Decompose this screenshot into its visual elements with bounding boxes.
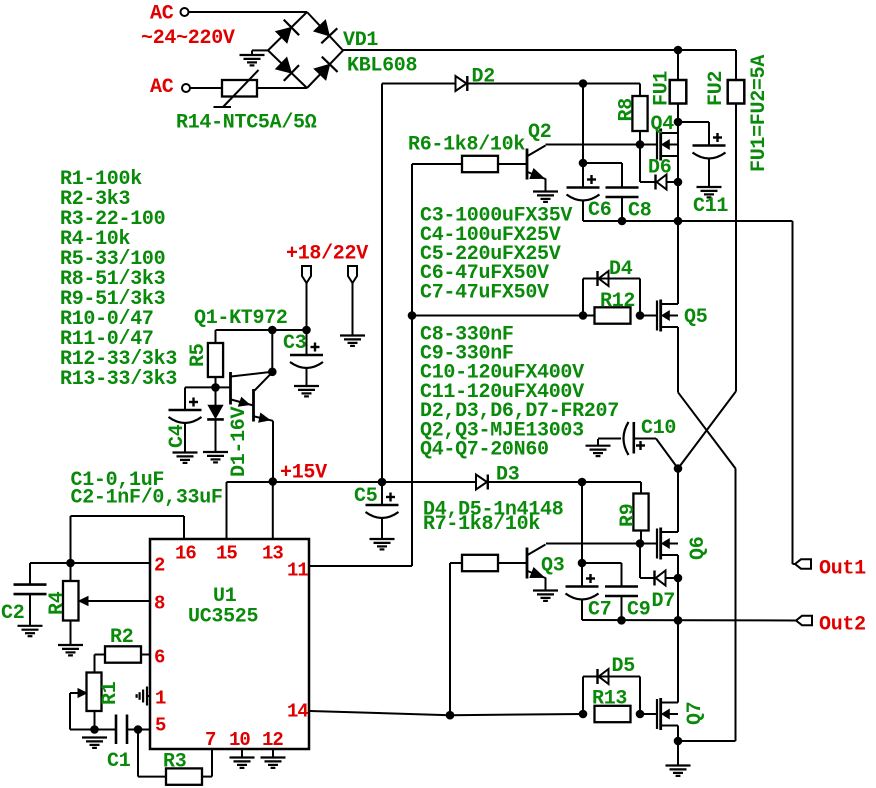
ground at +18/22V terminal bbox=[340, 334, 365, 336]
wire C7 top lead bbox=[581, 563, 583, 587]
terminal Out2 bbox=[796, 616, 812, 625]
transistor Q1 collector2 bbox=[255, 372, 273, 390]
wire C8 top lead bbox=[583, 162, 622, 164]
svg-text:D7: D7 bbox=[652, 590, 675, 613]
resistor R13 bbox=[595, 706, 631, 722]
node junction R13 right/Q7 gate bbox=[636, 710, 645, 719]
svg-text:10: 10 bbox=[229, 729, 250, 751]
svg-text:Q6: Q6 bbox=[687, 537, 710, 560]
svg-text:5: 5 bbox=[155, 715, 166, 737]
potentiometer R1 bbox=[87, 673, 102, 712]
wire switch-node bus bbox=[583, 220, 793, 222]
resistor R6 bbox=[462, 156, 498, 172]
diode D4 bbox=[596, 271, 598, 286]
svg-text:7: 7 bbox=[205, 729, 216, 751]
node junction R8/Q4 gate bbox=[636, 140, 645, 149]
wire Q1 collector vertical bbox=[271, 330, 273, 372]
wire R6 left bbox=[412, 163, 462, 165]
transistor Q1 base bar1 bbox=[216, 386, 231, 388]
wire C8 riser bbox=[582, 84, 584, 164]
resistor R7 bbox=[462, 555, 498, 571]
mosfet Q5 bbox=[656, 301, 658, 331]
svg-text:R3: R3 bbox=[163, 751, 186, 774]
node AC bottom terminal bbox=[182, 84, 190, 92]
ground at pin12 bbox=[261, 756, 286, 758]
wire pin16 riser bbox=[183, 516, 185, 539]
wire C10 to switch node bbox=[634, 438, 656, 440]
wire Q5 drain bbox=[677, 221, 679, 304]
ground at C10 bbox=[586, 445, 611, 447]
node junction C7/C9 top bbox=[578, 559, 587, 568]
node junction drive branch bbox=[408, 311, 417, 320]
wire pin6 row bbox=[141, 654, 150, 656]
diode D7 branch bbox=[639, 544, 641, 579]
mosfet Q6 bbox=[656, 529, 658, 559]
wire Q6 source bbox=[677, 555, 679, 620]
diode D5 bbox=[596, 669, 598, 684]
wire R7 to Q3 base bbox=[498, 562, 527, 564]
wire C3 top lead bbox=[306, 330, 308, 355]
svg-text:~24~220V: ~24~220V bbox=[141, 27, 235, 50]
svg-text:12: 12 bbox=[262, 729, 283, 751]
svg-text:FU1: FU1 bbox=[651, 71, 674, 106]
wire R7 left bbox=[450, 562, 462, 564]
transistor Q1 emitter2 bbox=[255, 417, 274, 421]
svg-text:AC: AC bbox=[150, 76, 174, 99]
svg-text:R13-33/3k3: R13-33/3k3 bbox=[60, 368, 177, 391]
svg-text:KBL608: KBL608 bbox=[347, 55, 417, 78]
zener D1 bbox=[215, 387, 217, 405]
wire D3 cathode row bbox=[488, 481, 641, 483]
wire C5 to ground bbox=[381, 519, 383, 540]
transistor Q1 collector1 bbox=[231, 372, 272, 377]
svg-text:16: 16 bbox=[175, 543, 196, 565]
svg-text:FU1=FU2=5A: FU1=FU2=5A bbox=[748, 55, 771, 172]
svg-text:C10: C10 bbox=[641, 417, 676, 440]
ground at D1 bbox=[203, 451, 228, 453]
svg-text:D3: D3 bbox=[496, 464, 519, 487]
wire +15V rail bbox=[227, 481, 477, 483]
resistor R9 bbox=[640, 482, 642, 494]
svg-text:C2: C2 bbox=[1, 602, 24, 625]
wire C1 to pin5 bbox=[127, 729, 150, 731]
svg-text:R6-1k8/10k: R6-1k8/10k bbox=[408, 134, 525, 157]
wire AC bottom to R14 bbox=[190, 87, 222, 89]
wire R2 to R1 bbox=[95, 654, 106, 656]
wire pin13 riser bbox=[272, 482, 274, 539]
svg-text:8: 8 bbox=[154, 593, 165, 615]
node junction Q1 collector rail bbox=[268, 326, 277, 335]
wire Q1 top rail bbox=[216, 329, 307, 331]
wire Q6 drain bbox=[677, 469, 679, 533]
resistor R3 bbox=[166, 768, 202, 784]
svg-text:1: 1 bbox=[155, 688, 166, 710]
capacitor C1 bbox=[115, 715, 118, 745]
wire Out2 bus bbox=[582, 619, 796, 622]
diode D4 branch bbox=[582, 279, 584, 316]
node junction Q1 collectors bbox=[268, 368, 277, 377]
bridge diode lower-right bbox=[314, 64, 330, 80]
capacitor C8 bbox=[606, 186, 639, 189]
svg-text:C11: C11 bbox=[693, 195, 728, 218]
wire bus to Out1 drop bbox=[792, 221, 794, 564]
node junction pin5/R3 bbox=[134, 725, 143, 734]
svg-text:FU2: FU2 bbox=[705, 71, 728, 106]
wire R8 to gate row bbox=[639, 131, 641, 145]
node AC top terminal bbox=[181, 8, 189, 16]
wire C6 bottom lead bbox=[582, 200, 584, 221]
ground at pin10 bbox=[230, 756, 255, 758]
node junction C8/bus bbox=[618, 217, 627, 226]
wire pin15 riser bbox=[226, 482, 228, 539]
wire C4 branch bbox=[185, 386, 216, 388]
wire Q4 drain to C11 bbox=[678, 121, 709, 123]
wire pin14 row bbox=[310, 711, 450, 715]
wire C2 to ground bbox=[29, 594, 31, 626]
node junction R7/pin14 bbox=[446, 711, 455, 720]
wire R13 to Q7 gate bbox=[640, 713, 657, 715]
capacitor C6 bbox=[567, 186, 600, 189]
svg-text:D5: D5 bbox=[612, 655, 635, 678]
wire +15 riser top corner bbox=[381, 84, 383, 483]
resistor R5 bbox=[215, 330, 217, 343]
ground at C11 bbox=[697, 186, 722, 188]
node junction Q1 emitter/+15V bbox=[269, 477, 278, 486]
wire C3 to ground bbox=[306, 369, 308, 387]
wire C2 lead bbox=[29, 563, 31, 585]
ground at C2 bbox=[18, 625, 43, 627]
fuse FU1 bbox=[677, 50, 679, 122]
node junction R12 right/Q5 gate bbox=[636, 311, 645, 320]
wire Out1 lead bbox=[793, 563, 796, 565]
mosfet Q7 bbox=[656, 699, 658, 729]
svg-text:UC3525: UC3525 bbox=[188, 606, 258, 629]
svg-text:Q5: Q5 bbox=[684, 306, 707, 329]
node junction R13 left bbox=[579, 710, 588, 719]
svg-text:R8: R8 bbox=[616, 98, 639, 121]
wire Q7 ground lead bbox=[677, 741, 679, 766]
node junction D2/C8 riser bbox=[579, 79, 588, 88]
svg-text:C1: C1 bbox=[107, 750, 131, 773]
diode D2 bbox=[456, 76, 467, 91]
wire diagonal Q5-source to right bbox=[678, 392, 736, 468]
node junction R12 left bbox=[579, 311, 588, 320]
ground at C4 bbox=[173, 451, 198, 453]
wire C7-C9 riser bbox=[581, 482, 583, 563]
svg-text:R4: R4 bbox=[46, 591, 69, 615]
svg-text:14: 14 bbox=[287, 701, 308, 723]
wire terminal to ground bbox=[352, 283, 354, 336]
resistor R8 bbox=[639, 84, 641, 97]
node junction top rail/FU1 bbox=[674, 46, 683, 55]
svg-text:C7-47uFX50V: C7-47uFX50V bbox=[420, 281, 549, 304]
wire bridge left to ground bbox=[252, 49, 268, 51]
transistor Q3 bbox=[526, 548, 529, 579]
capacitor C4 bbox=[169, 409, 202, 412]
wire C4 to ground bbox=[184, 424, 186, 453]
ground at bridge bbox=[240, 54, 265, 56]
svg-text:Q7: Q7 bbox=[684, 702, 707, 725]
bridge VD1 diamond bbox=[268, 12, 307, 50]
node junction Q7 source/ground bbox=[674, 737, 683, 746]
svg-text:D1-16V: D1-16V bbox=[228, 406, 251, 477]
svg-text:D4: D4 bbox=[609, 258, 633, 281]
wire C9 bottom lead bbox=[621, 596, 623, 620]
svg-text:D2: D2 bbox=[472, 66, 495, 89]
svg-text:C6: C6 bbox=[588, 199, 611, 222]
wire R3 to pin7 bbox=[202, 776, 212, 778]
node junction C9/Out2 bbox=[617, 616, 626, 625]
svg-text:R12: R12 bbox=[600, 290, 635, 313]
terminal +18/22V right bbox=[348, 266, 357, 283]
svg-text:2: 2 bbox=[154, 555, 165, 577]
node junction R5/C4/D1/base bbox=[211, 383, 220, 392]
ground at C5 bbox=[370, 538, 395, 540]
svg-text:C9: C9 bbox=[627, 599, 650, 622]
node junction Q4 drain bbox=[674, 118, 683, 127]
wire FU2 drop bbox=[735, 104, 737, 392]
wire top rail to FU2 bbox=[678, 49, 736, 51]
wire C11 to ground bbox=[708, 159, 710, 188]
svg-text:C8: C8 bbox=[628, 200, 651, 223]
wire R6 to Q2 base bbox=[498, 163, 527, 165]
wire diagonal FU2 to switch node bbox=[678, 392, 736, 469]
svg-text:R13: R13 bbox=[592, 688, 627, 711]
wire to C1 bbox=[95, 729, 117, 731]
fuse FU2 bbox=[728, 80, 745, 104]
svg-text:Q3: Q3 bbox=[541, 555, 564, 578]
node junction C3/terminal bbox=[302, 326, 311, 335]
wire pin8 row R4 wiper bbox=[83, 600, 150, 602]
svg-text:Out1: Out1 bbox=[819, 558, 866, 581]
node junction C6/C8 top bbox=[579, 159, 588, 168]
wire R1 wiper loop bbox=[70, 692, 82, 694]
node junction D3/C7 riser bbox=[578, 478, 587, 487]
svg-text:R9: R9 bbox=[617, 504, 640, 527]
wire Q2 collector row bbox=[546, 144, 658, 146]
ground at R1 bbox=[82, 736, 107, 738]
transistor Q1 emitter1/base2 bbox=[231, 400, 254, 406]
wire AC top to bridge bbox=[189, 11, 308, 13]
bridge diode upper-right bbox=[314, 20, 329, 36]
bridge diode lower-left bbox=[276, 58, 292, 74]
ground at Q7 source bbox=[666, 764, 691, 766]
wire Q5 source bbox=[677, 327, 679, 392]
capacitor C10 bbox=[624, 422, 629, 455]
node junction R1/ground/C1 bbox=[90, 725, 99, 734]
wire C9 top lead bbox=[582, 562, 622, 564]
wire rectifier + rail bbox=[343, 49, 678, 51]
svg-text:6: 6 bbox=[154, 647, 165, 669]
svg-text:VD1: VD1 bbox=[343, 29, 378, 52]
wire C8 bottom lead bbox=[621, 197, 623, 221]
wire drive row to R12 bbox=[412, 315, 595, 317]
diode D6 branch bbox=[639, 145, 641, 183]
wire Q4 source bbox=[677, 122, 679, 304]
mosfet Q4 bbox=[656, 130, 658, 160]
svg-text:R7-1k8/10k: R7-1k8/10k bbox=[423, 513, 540, 536]
wire Q7 source bbox=[677, 726, 679, 742]
svg-text:AC: AC bbox=[150, 2, 174, 25]
wire D2 cathode row bbox=[468, 83, 640, 85]
node junction C10/Q6 drain bbox=[674, 464, 683, 473]
ground at C3 bbox=[294, 385, 319, 387]
wire FU2 top lead bbox=[735, 50, 737, 80]
svg-text:Q2: Q2 bbox=[528, 121, 551, 144]
svg-text:Q4: Q4 bbox=[651, 113, 675, 136]
svg-text:D6: D6 bbox=[648, 157, 671, 180]
svg-text:R2: R2 bbox=[110, 626, 133, 649]
terminal +18/22V left bbox=[302, 266, 311, 283]
node junction D7/source bbox=[674, 574, 683, 583]
node junction Q6-Q7/Out2 bbox=[674, 616, 683, 625]
capacitor C5 bbox=[381, 482, 383, 505]
svg-text:13: 13 bbox=[262, 543, 283, 565]
capacitor C3 bbox=[290, 354, 323, 357]
svg-text:R1: R1 bbox=[99, 681, 122, 705]
resistor R2 bbox=[105, 646, 141, 662]
svg-text:C2-1nF/0,33uF: C2-1nF/0,33uF bbox=[71, 487, 223, 510]
diode D3 bbox=[476, 475, 487, 490]
wire R14 to bridge bbox=[257, 87, 307, 89]
node junction pin2/pin16 bbox=[66, 559, 75, 568]
svg-text:15: 15 bbox=[216, 543, 237, 565]
wire R3 loop bbox=[137, 730, 139, 777]
transistor Q2 bbox=[526, 149, 529, 180]
svg-text:+18/22V: +18/22V bbox=[286, 243, 368, 266]
potentiometer R4 bbox=[70, 563, 72, 581]
wire C10 ground lead bbox=[598, 438, 621, 440]
svg-text:C7: C7 bbox=[588, 599, 611, 622]
diode D5 branch bbox=[582, 677, 584, 715]
wire C7 bottom lead bbox=[581, 600, 583, 621]
wire Q7 drain bbox=[677, 620, 679, 703]
node junction D6/source bbox=[674, 178, 683, 187]
wire pin11 row bbox=[309, 565, 412, 567]
bridge diode upper-left bbox=[276, 27, 292, 43]
capacitor C11 bbox=[693, 144, 726, 147]
wire D2 anode bbox=[382, 83, 456, 85]
wire C6 top lead bbox=[582, 163, 584, 188]
ground at R4 bbox=[58, 644, 83, 646]
resistor R14 NTC bbox=[222, 80, 257, 97]
svg-text:R5: R5 bbox=[187, 344, 210, 367]
capacitor C7 bbox=[566, 585, 599, 588]
wire Q6 gate row bbox=[546, 543, 657, 545]
svg-text:11: 11 bbox=[287, 560, 308, 582]
wire pin2 row bbox=[30, 562, 150, 564]
node junction C5/+15V bbox=[378, 478, 387, 487]
capacitor C9 bbox=[605, 585, 638, 588]
node junction R9/Q6 gate bbox=[636, 539, 645, 548]
wire Q5-source rail to ground node bbox=[678, 740, 736, 742]
svg-text:C5: C5 bbox=[354, 485, 377, 508]
resistor R12 bbox=[595, 307, 631, 323]
ground at pin1 bbox=[146, 687, 148, 706]
svg-text:R14-NTC5A/5Ω: R14-NTC5A/5Ω bbox=[176, 112, 317, 135]
wire R12 to Q5 gate bbox=[640, 315, 657, 317]
svg-text:Out2: Out2 bbox=[819, 614, 866, 637]
node junction bus/Q4-Q5 bbox=[674, 217, 683, 226]
terminal Out1 bbox=[795, 559, 811, 568]
ic U1 UC3525 body bbox=[150, 539, 309, 749]
svg-text:C3: C3 bbox=[283, 332, 306, 355]
capacitor C2 bbox=[14, 583, 47, 586]
svg-text:Q4-Q7-20N60: Q4-Q7-20N60 bbox=[420, 439, 549, 462]
wire terminal to C3 node bbox=[306, 283, 308, 330]
